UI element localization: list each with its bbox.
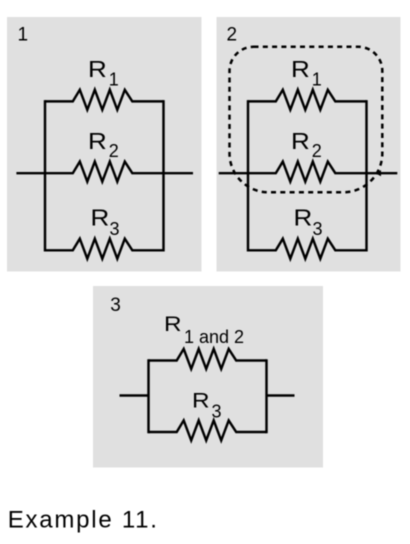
- svg-text:R: R: [291, 57, 310, 82]
- svg-text:3: 3: [110, 219, 120, 239]
- wire: panel 2 left terminal lead: [219, 172, 248, 174]
- svg-text:Example 11.: Example 11.: [8, 506, 159, 533]
- wire: panel 3 right rail: [265, 361, 267, 433]
- svg-text:R: R: [88, 57, 107, 82]
- svg-text:R: R: [91, 206, 110, 231]
- svg-text:1: 1: [18, 24, 29, 45]
- resistor R1 (panel 1, top branch): [45, 90, 164, 110]
- svg-text:R: R: [294, 206, 313, 231]
- panel 2 background: [217, 17, 401, 272]
- resistor R3 (panel 1, bottom branch): [45, 239, 164, 259]
- resistor R1and2 (panel 3, top branch): [149, 349, 267, 369]
- wire: panel 1 left rail: [44, 101, 46, 250]
- panel 1 background: [7, 17, 202, 272]
- wire: panel 2 right rail: [365, 101, 367, 250]
- wire: panel 1 right rail: [162, 101, 164, 250]
- resistor R2 (panel 2, middle branch): [248, 162, 367, 182]
- svg-text:R: R: [88, 129, 107, 154]
- arrowhead on panel 2 right terminal: [375, 170, 381, 176]
- svg-text:3: 3: [212, 402, 222, 422]
- svg-text:R: R: [291, 129, 310, 154]
- svg-text:3: 3: [110, 295, 121, 316]
- resistor R2 (panel 1, middle branch): [45, 162, 164, 182]
- svg-text:1: 1: [312, 69, 322, 89]
- wire: panel 1 left terminal lead: [16, 172, 45, 174]
- wire: panel 2 right terminal lead: [367, 172, 398, 174]
- resistor R1 (panel 2, top branch): [248, 90, 367, 110]
- dashed selection loop around R1 and R2 (panel 2): [230, 47, 383, 193]
- resistor R3 (panel 2, bottom branch): [248, 239, 367, 259]
- wire: panel 2 left rail: [247, 101, 249, 250]
- svg-text:2: 2: [312, 141, 322, 161]
- resistor R3 (panel 3, bottom branch): [149, 420, 267, 440]
- wire: panel 1 right terminal lead: [164, 172, 194, 174]
- svg-text:R: R: [164, 312, 182, 336]
- svg-text:R: R: [192, 388, 210, 412]
- wire: panel 3 left terminal lead: [120, 394, 149, 396]
- svg-text:3: 3: [313, 219, 323, 239]
- svg-text:1 and 2: 1 and 2: [184, 327, 244, 347]
- svg-text:1: 1: [109, 69, 119, 89]
- panel 3 background: [93, 286, 323, 468]
- svg-text:2: 2: [227, 24, 238, 45]
- svg-text:2: 2: [109, 141, 119, 161]
- wire: panel 3 right terminal lead: [267, 394, 295, 396]
- wire: panel 3 left rail: [147, 361, 149, 433]
